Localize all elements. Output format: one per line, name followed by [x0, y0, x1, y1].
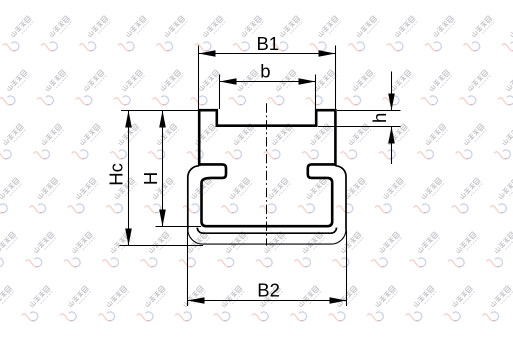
svg-text:b: b: [260, 60, 270, 81]
dimension h: [318, 72, 401, 165]
Hc bottom extension line: [120, 245, 204, 247]
second bottom line: [197, 228, 336, 234]
b extension lines: [220, 75, 316, 110]
left outer wall: [188, 166, 199, 230]
dimension B2: [188, 229, 347, 306]
svg-text:Hc: Hc: [106, 163, 127, 186]
B2 extension lines: [188, 229, 347, 306]
dimension H: [140, 111, 201, 227]
B1 extension lines: [199, 46, 336, 110]
svg-text:B2: B2: [257, 279, 280, 300]
Hc/H top extension line: [121, 110, 199, 112]
h extension lines: [318, 111, 401, 127]
svg-text:h: h: [369, 113, 390, 123]
outer bottom contour: [188, 229, 346, 244]
dimension B1: [199, 33, 336, 109]
C-channel with inward lips: [199, 164, 335, 226]
right outer wall: [335, 166, 346, 230]
H bottom extension line: [156, 226, 202, 228]
svg-text:B1: B1: [256, 33, 279, 54]
svg-text:H: H: [140, 172, 161, 185]
H dimension line with arrows: [162, 111, 164, 227]
B2 dimension line with arrows: [188, 300, 347, 302]
b dimension line with arrows: [220, 81, 316, 83]
centerline: [266, 103, 268, 245]
B1 dimension line with arrows: [199, 53, 336, 55]
dimension Hc: [106, 111, 203, 246]
hat top outline (ears + web): [199, 110, 335, 166]
dimension b: [220, 60, 316, 109]
h dimension line with arrows: [391, 72, 393, 165]
Hc dimension line with arrows: [128, 111, 130, 246]
